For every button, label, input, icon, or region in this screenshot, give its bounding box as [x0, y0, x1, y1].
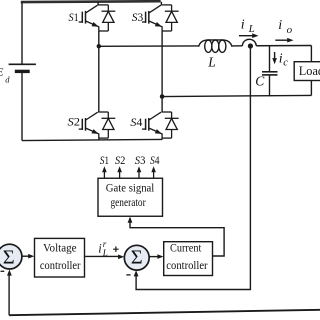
- svg-text:S4: S4: [130, 115, 142, 129]
- svg-text:L: L: [248, 23, 255, 35]
- svg-text:controller: controller: [40, 258, 81, 272]
- svg-text:S3: S3: [135, 153, 146, 167]
- svg-text:S2: S2: [115, 153, 126, 167]
- svg-text:Voltage: Voltage: [43, 241, 77, 255]
- svg-text:i: i: [278, 18, 282, 33]
- svg-text:d: d: [5, 75, 10, 85]
- svg-text:S1: S1: [100, 153, 109, 167]
- svg-text:S2: S2: [68, 115, 81, 129]
- svg-text:controller: controller: [166, 258, 207, 272]
- svg-text:c: c: [283, 58, 288, 69]
- svg-text:i: i: [279, 52, 283, 67]
- svg-text:C: C: [255, 74, 265, 89]
- svg-text:i: i: [98, 242, 102, 256]
- svg-text:L: L: [102, 248, 108, 258]
- svg-text:S4: S4: [150, 153, 160, 167]
- svg-text:S3: S3: [132, 10, 144, 24]
- svg-text:S1: S1: [69, 10, 79, 24]
- svg-text:i: i: [241, 18, 245, 33]
- svg-text:Load: Load: [299, 64, 320, 78]
- svg-text:E: E: [0, 68, 4, 79]
- svg-text:o: o: [287, 24, 293, 36]
- svg-text:L: L: [207, 55, 216, 70]
- svg-text:Current: Current: [170, 243, 202, 255]
- svg-text:generator: generator: [111, 197, 146, 209]
- svg-text:Gate signal: Gate signal: [106, 180, 155, 194]
- svg-text:Σ: Σ: [3, 246, 15, 268]
- svg-text:Σ: Σ: [131, 247, 143, 269]
